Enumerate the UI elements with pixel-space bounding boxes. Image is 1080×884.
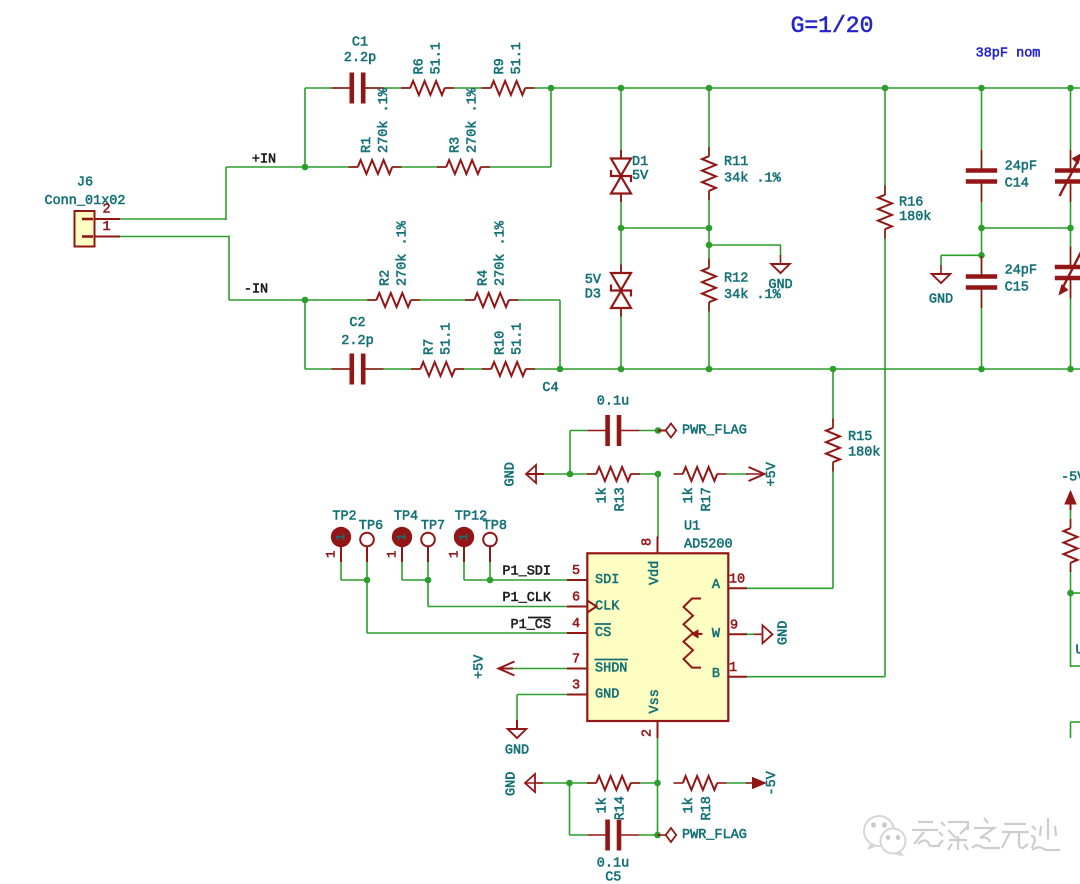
node junction R11 top: [706, 85, 713, 92]
ground R14 stub: [525, 782, 543, 784]
node junction C15 bottom: [978, 366, 985, 373]
svg-text:270k .1%: 270k .1%: [396, 220, 411, 286]
svg-text:-IN: -IN: [244, 283, 268, 298]
wire +IN row: [226, 166, 551, 168]
svg-text:-5V: -5V: [1061, 471, 1080, 486]
svg-text:C5: C5: [605, 871, 621, 884]
svg-text:TP4: TP4: [394, 510, 418, 525]
wire D-R11 link: [621, 227, 709, 229]
wire TP12 down: [463, 562, 465, 580]
svg-text:1: 1: [395, 533, 409, 540]
resistor R14: [596, 775, 631, 792]
svg-text:R17: R17: [700, 487, 715, 511]
node junction R14 left: [566, 780, 573, 787]
PWR_FLAG bottom stub: [658, 834, 666, 836]
svg-text:6: 6: [572, 591, 580, 606]
node junction +IN: [302, 164, 309, 171]
wire R17 to +5V: [727, 473, 749, 475]
svg-text:P1_SDI: P1_SDI: [502, 565, 551, 580]
U1 CLK wedge: [587, 601, 596, 613]
J6 pin 2 stub: [95, 218, 121, 220]
svg-text:24pF: 24pF: [1005, 264, 1037, 279]
node junction C14 top: [978, 85, 985, 92]
node junction R12 bottom: [706, 366, 713, 373]
svg-text:+5V: +5V: [765, 461, 780, 486]
wire node -IN down: [304, 300, 306, 369]
svg-text:PWR_FLAG: PWR_FLAG: [682, 828, 747, 843]
ground R14: [525, 774, 535, 792]
wire J6.1 to -IN: [120, 236, 229, 238]
wire -IN row: [229, 299, 560, 301]
wire Vss down: [657, 738, 659, 783]
node junction trim bottom: [1067, 366, 1074, 373]
svg-text:270k .1%: 270k .1%: [493, 220, 508, 286]
trimmer capacitor CT2: [1055, 265, 1080, 281]
wire TP6 down: [366, 562, 368, 580]
svg-text:3: 3: [572, 679, 580, 694]
wire TP2 down: [340, 562, 342, 580]
svg-text:AD5200: AD5200: [684, 538, 733, 553]
+5V arrow left: [499, 662, 515, 676]
wire cap C4 right: [639, 430, 658, 432]
svg-text:W: W: [712, 627, 721, 642]
svg-text:9: 9: [730, 619, 738, 634]
svg-text:51.1: 51.1: [439, 323, 454, 355]
wire R18 to -5V: [727, 782, 749, 784]
capacitor C14: [966, 168, 998, 184]
watermark logo: [864, 816, 906, 856]
CT1 arrow: [1060, 155, 1080, 196]
node junction D bottom: [618, 366, 625, 373]
node junction D mid: [618, 225, 625, 232]
wire -5V column: [1070, 510, 1072, 667]
svg-text:2.2p: 2.2p: [341, 334, 373, 349]
svg-text:2.2p: 2.2p: [344, 51, 376, 66]
svg-text:CS: CS: [595, 626, 611, 641]
node junction R12 top: [706, 242, 713, 249]
ground W stub: [754, 633, 763, 635]
node junction D top: [618, 85, 625, 92]
J6 pin 1 stub: [95, 236, 121, 238]
node junction C4 right: [655, 427, 662, 434]
U1 wiper arrow: [691, 629, 699, 638]
wire top rail: [551, 87, 1080, 89]
wire right of R9 down: [550, 88, 552, 167]
wire TP7 down: [427, 562, 429, 580]
node junction R2R4 end: [557, 366, 564, 373]
P1_CS overbar: [528, 617, 551, 619]
trimmer capacitor CT1: [1055, 168, 1080, 184]
svg-text:R16: R16: [899, 196, 923, 211]
-5V stub: [746, 782, 757, 784]
connector J6 body: [75, 211, 95, 247]
U1 pin 1 stub: [728, 676, 747, 678]
svg-text:34k .1%: 34k .1%: [724, 172, 782, 187]
svg-text:GND: GND: [768, 278, 792, 293]
wire CS net: [366, 580, 368, 633]
resistor R2: [376, 292, 411, 309]
wire right edge corner: [1071, 665, 1080, 667]
svg-text:R14: R14: [614, 796, 629, 820]
svg-text:Conn_01x02: Conn_01x02: [44, 194, 125, 209]
svg-text:R18: R18: [700, 796, 715, 820]
svg-text:R10: R10: [494, 331, 509, 355]
resistor R6: [410, 80, 445, 97]
wire C14-trim link: [982, 227, 1071, 229]
wire R14 row: [537, 782, 658, 784]
svg-text:R3: R3: [449, 137, 464, 153]
wire right edge out: [1071, 592, 1080, 594]
wire R13 row: [537, 473, 658, 475]
resistor R16: [877, 195, 894, 230]
ground R13: [526, 465, 536, 483]
GND mid stub: [780, 255, 782, 264]
U1 body: [587, 553, 728, 721]
svg-text:U: U: [1076, 644, 1080, 659]
svg-text:2: 2: [102, 203, 110, 218]
svg-text:U1: U1: [684, 520, 700, 535]
node junction R11 mid: [706, 225, 713, 232]
wire SHDN: [508, 668, 567, 670]
zener D3: [611, 273, 632, 309]
svg-text:1: 1: [457, 533, 471, 540]
svg-text:R1: R1: [360, 137, 375, 153]
svg-text:2: 2: [641, 729, 656, 737]
svg-text:D3: D3: [585, 288, 601, 303]
U1 SHDN overbar: [595, 659, 629, 661]
wire to GND mid: [709, 244, 781, 246]
-5V arrow right: [753, 778, 766, 789]
resistor R9: [491, 80, 526, 97]
svg-text:1: 1: [334, 533, 348, 540]
svg-text:P1_CLK: P1_CLK: [502, 591, 552, 606]
svg-text:38pF nom: 38pF nom: [976, 47, 1041, 62]
svg-text:+IN: +IN: [252, 153, 276, 168]
J6 pin 2 tab: [82, 218, 93, 221]
svg-text:1k: 1k: [596, 487, 611, 503]
testpoint TP7: [421, 533, 435, 547]
U1 potentiometer glyph: [684, 599, 702, 668]
U1 pin 6 stub: [567, 606, 587, 608]
node junction R14 right: [654, 780, 661, 787]
wire A net: [747, 587, 833, 589]
node junction R13 right: [655, 471, 662, 478]
PWR_FLAG top stub: [658, 430, 666, 432]
wire CLK net: [427, 580, 429, 607]
CT2 arrow: [1060, 252, 1080, 293]
wire C5 left: [569, 783, 571, 835]
svg-text:GND: GND: [595, 688, 619, 703]
ground pin3: [508, 729, 527, 738]
wire right edge bracket: [1071, 721, 1080, 723]
svg-text:C1: C1: [352, 36, 368, 51]
GND right stub: [940, 265, 942, 274]
svg-text:4: 4: [572, 617, 580, 632]
svg-text:R2: R2: [379, 270, 394, 286]
node junction TP6: [364, 577, 371, 584]
svg-text:P1_CS: P1_CS: [510, 618, 551, 633]
svg-text:R15: R15: [848, 430, 872, 445]
svg-text:Vdd: Vdd: [648, 561, 663, 585]
svg-text:SDI: SDI: [595, 573, 619, 588]
testpoint TP6: [360, 533, 374, 547]
ground mid: [771, 264, 790, 273]
U1 pin 4 stub: [567, 632, 587, 634]
U1 pin 2 stub: [657, 721, 659, 738]
J6 pin 1 tab: [82, 235, 93, 238]
wire R2R4 end down: [559, 300, 561, 369]
resistor R3: [446, 159, 481, 176]
svg-text:TP6: TP6: [359, 519, 383, 534]
wire bottom rail: [305, 368, 1080, 370]
svg-text:51.1: 51.1: [429, 42, 444, 74]
svg-text:1k: 1k: [596, 797, 611, 813]
svg-text:GND: GND: [504, 462, 519, 486]
svg-text:GND: GND: [505, 744, 529, 759]
svg-text:CLK: CLK: [595, 600, 620, 615]
-5V arrow up: [1065, 491, 1076, 504]
wire trimmer column: [1070, 88, 1072, 369]
wire cap C4 left: [570, 430, 587, 432]
wire node +IN up: [304, 88, 306, 167]
zener D1: [611, 158, 632, 194]
svg-text:51.1: 51.1: [510, 323, 525, 355]
svg-text:180k: 180k: [899, 210, 931, 225]
node junction C14 bottom: [978, 225, 985, 232]
svg-text:A: A: [712, 578, 721, 593]
resistor R10: [491, 361, 526, 378]
wire D column: [620, 88, 622, 369]
svg-text:1: 1: [386, 550, 400, 558]
wire up to +IN row: [225, 167, 227, 220]
svg-text:G=1/20: G=1/20: [791, 13, 874, 39]
svg-text:1: 1: [325, 550, 339, 558]
svg-text:270k .1%: 270k .1%: [377, 87, 392, 153]
-5V column stub: [1070, 503, 1072, 510]
wire GND pin3: [517, 694, 567, 696]
wire TP4 down: [401, 562, 403, 580]
U1 pin 5 stub: [567, 579, 587, 581]
resistor R11: [701, 156, 718, 191]
TP8 lead: [489, 547, 491, 563]
wire B net: [747, 676, 885, 678]
U1 pin 9 stub: [728, 633, 747, 635]
svg-text:5: 5: [572, 564, 580, 579]
node junction right edge: [1067, 590, 1074, 597]
svg-text:SHDN: SHDN: [595, 662, 627, 677]
svg-text:J6: J6: [77, 176, 93, 191]
+5V left stub: [499, 668, 514, 670]
svg-text:C14: C14: [1005, 177, 1029, 192]
svg-text:0.1u: 0.1u: [597, 395, 629, 410]
svg-text:GND: GND: [929, 293, 953, 308]
svg-text:C4: C4: [542, 381, 558, 396]
wire TP8 down: [489, 562, 491, 580]
TP2 lead: [340, 547, 342, 562]
svg-text:GND: GND: [777, 621, 792, 645]
node junction R13 left: [567, 471, 574, 478]
U1 pin 10 stub: [728, 587, 747, 589]
resistor R12: [701, 268, 718, 303]
resistor R4: [474, 292, 509, 309]
capacitor C4 0.1u: [605, 415, 621, 447]
node junction trim mid: [1067, 225, 1074, 232]
node junction C5 right: [654, 832, 661, 839]
svg-text:180k: 180k: [848, 446, 880, 461]
node junction TP8: [487, 577, 494, 584]
svg-text:10: 10: [729, 573, 745, 588]
svg-text:51.1: 51.1: [510, 42, 525, 74]
capacitor C5 0.1u: [605, 819, 621, 851]
svg-text:8: 8: [641, 538, 656, 546]
svg-text:TP7: TP7: [421, 519, 445, 534]
svg-text:R9: R9: [493, 58, 508, 74]
ground W: [763, 625, 773, 643]
TP4 lead: [401, 547, 403, 562]
wire gnd branch: [941, 254, 982, 256]
wire C4 left down: [569, 431, 571, 475]
svg-text:D1: D1: [632, 155, 648, 170]
svg-text:Vss: Vss: [648, 689, 663, 713]
svg-text:PWR_FLAG: PWR_FLAG: [682, 424, 747, 439]
svg-text:7: 7: [572, 653, 580, 668]
+5V arrow right: [749, 467, 765, 481]
svg-text:24pF: 24pF: [1005, 160, 1037, 175]
resistor R7: [420, 361, 455, 378]
wire W to GND: [747, 633, 755, 635]
svg-text:C15: C15: [1005, 281, 1029, 296]
testpoint TP12: [454, 527, 474, 547]
capacitor C15: [966, 274, 998, 290]
node junction top rail left: [548, 85, 555, 92]
svg-text:GND: GND: [505, 772, 520, 796]
resistor R18: [683, 775, 718, 792]
TP7 lead: [427, 547, 429, 563]
svg-text:270k .1%: 270k .1%: [465, 87, 480, 153]
svg-text:R7: R7: [423, 339, 438, 355]
power flag bottom: [666, 828, 677, 842]
resistor R17: [683, 466, 718, 483]
node junction -IN: [302, 297, 309, 304]
svg-text:1: 1: [102, 220, 110, 235]
svg-text:+5V: +5V: [473, 654, 488, 679]
wire C1 row: [305, 87, 551, 89]
svg-text:C2: C2: [349, 316, 365, 331]
ground right: [932, 274, 951, 283]
testpoint TP2: [331, 527, 351, 547]
svg-text:5V: 5V: [632, 169, 649, 184]
svg-text:1: 1: [729, 661, 737, 676]
svg-text:B: B: [712, 667, 720, 682]
node junction TP7: [425, 577, 432, 584]
svg-text:R4: R4: [477, 270, 492, 286]
+5V right stub: [746, 473, 765, 475]
U1 pin 8 stub: [657, 537, 659, 554]
svg-text:R6: R6: [413, 58, 428, 74]
U1 CS overbar: [595, 623, 612, 625]
svg-text:1k: 1k: [682, 797, 697, 813]
testpoint TP4: [392, 527, 412, 547]
node junction R16 top: [882, 85, 889, 92]
svg-text:R13: R13: [614, 487, 629, 511]
svg-text:0.1u: 0.1u: [597, 857, 629, 872]
resistor R19: [1062, 528, 1079, 563]
svg-text:5V: 5V: [585, 273, 602, 288]
U1 pin 7 stub: [567, 668, 587, 670]
wire J6.2 to +IN: [120, 218, 226, 220]
node junction gnd branch: [978, 252, 985, 259]
wire C14 column: [981, 88, 983, 369]
wire R16 column: [884, 88, 886, 677]
svg-text:TP2: TP2: [332, 510, 356, 525]
svg-text:-5V: -5V: [765, 770, 780, 795]
power flag top: [666, 424, 677, 438]
svg-text:1: 1: [448, 550, 462, 558]
wire R11 column: [708, 88, 710, 369]
U1 pin 3 stub: [567, 694, 587, 696]
svg-text:R11: R11: [724, 155, 748, 170]
TP6 lead: [366, 547, 368, 563]
svg-text:1k: 1k: [682, 487, 697, 503]
svg-text:R12: R12: [724, 272, 748, 287]
ground pin3 stub: [516, 720, 518, 729]
node junction R15 top: [830, 366, 837, 373]
watermark text: [912, 818, 1060, 850]
resistor R15: [825, 428, 842, 463]
resistor R1: [358, 159, 393, 176]
capacitor C1: [350, 72, 366, 104]
resistor R13: [596, 466, 631, 483]
TP12 lead: [463, 547, 465, 562]
testpoint TP8: [483, 533, 497, 547]
wire C5 right link: [657, 783, 659, 835]
ground R13 stub: [526, 473, 544, 475]
svg-text:TP8: TP8: [483, 519, 507, 534]
capacitor C2: [350, 353, 366, 385]
wire Vdd link: [657, 474, 659, 538]
node junction trim top: [1067, 85, 1074, 92]
wire down to -IN row: [228, 236, 230, 301]
wire cap C5 right: [639, 834, 658, 836]
wire SDI net: [490, 579, 567, 581]
